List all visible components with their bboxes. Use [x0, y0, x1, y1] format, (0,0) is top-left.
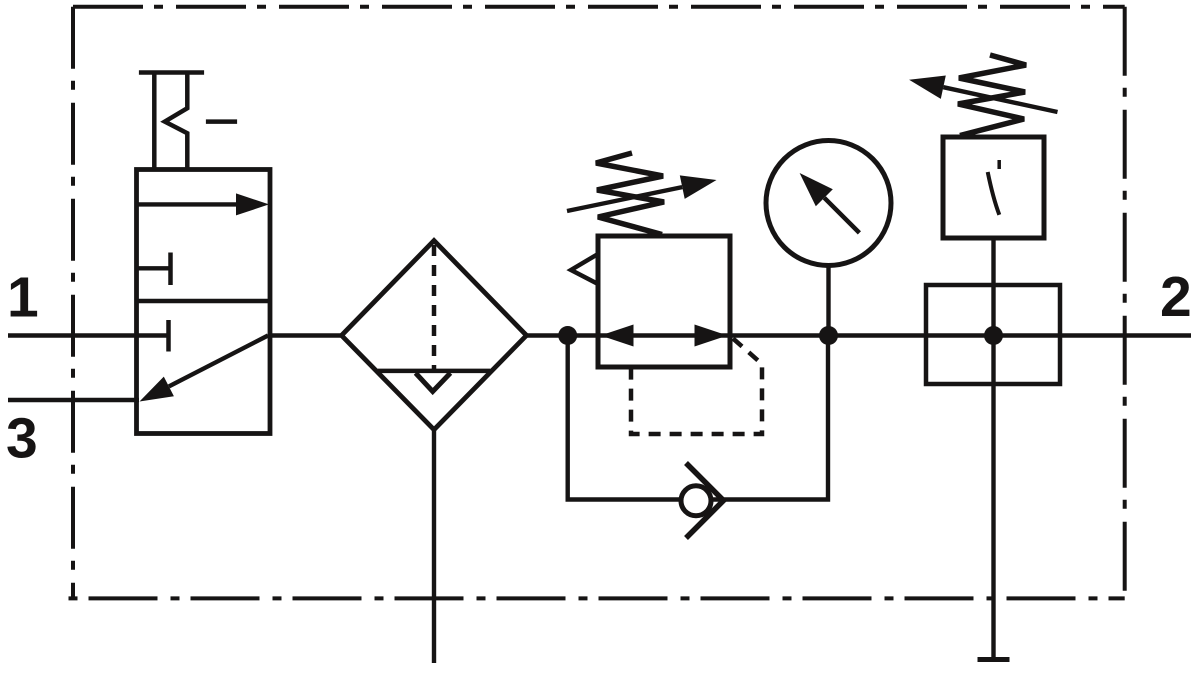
svg-text:1: 1 — [7, 266, 39, 330]
svg-text:3: 3 — [6, 407, 38, 471]
svg-text:2: 2 — [1160, 265, 1192, 329]
